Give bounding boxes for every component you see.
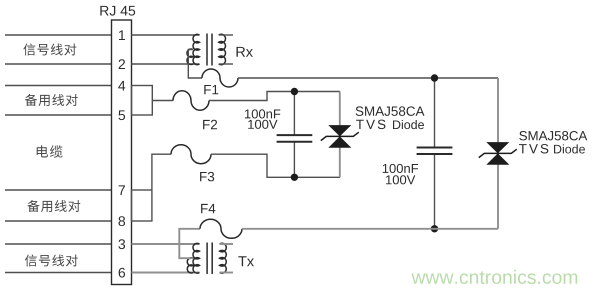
label Tx	[238, 256, 254, 266]
wire F4 to bottom rail	[242, 228, 498, 230]
wire: left lead row line pin 5	[5, 114, 112, 116]
wire: left lead row line pin 4	[5, 85, 112, 87]
label C2 voltage 100V	[386, 175, 415, 184]
junction node rail top	[431, 74, 438, 81]
label: cable	[37, 145, 63, 157]
transformer T2 Tx core	[206, 243, 208, 275]
wire top rail corner down to D2	[497, 78, 499, 229]
transformer T2 Tx primary tap half-winding	[187, 258, 193, 273]
wire: left lead row line pin 2	[5, 63, 112, 65]
label C1 value 100nF	[245, 109, 280, 118]
label: signal pair (bottom)	[25, 254, 78, 266]
transformer T1 Rx primary tap half-winding	[187, 49, 193, 64]
transformer T1 Rx core	[206, 34, 208, 66]
wire bracket pins 4-5	[132, 86, 153, 116]
TVS diode D2 SMAJ58CA	[486, 142, 509, 153]
fuse F4	[200, 219, 242, 238]
TVS diode D1 lead	[339, 92, 341, 178]
wire: left lead row line pin 8	[5, 220, 112, 222]
label F4	[201, 204, 215, 213]
wire Tx secondary bottom stub	[220, 272, 234, 274]
transformer T1 Rx primary winding	[193, 34, 199, 64]
wire: left lead row line pin 1	[5, 34, 112, 36]
fuse F2	[173, 91, 209, 111]
wire F2 to cell1 top rail	[209, 92, 340, 101]
label C1 voltage 100V	[248, 120, 277, 129]
transformer T1 Rx secondary winding	[219, 34, 226, 64]
wire pin2 to Rx primary bottom	[132, 63, 200, 65]
label Rx	[236, 47, 252, 57]
fuse F1	[202, 69, 238, 87]
wire pin6 to Tx primary bottom	[132, 272, 200, 274]
label: signal pair (top)	[23, 43, 76, 55]
label: spare pair (upper)	[25, 94, 78, 106]
wire Rx secondary bottom stub	[219, 63, 233, 65]
label F2	[203, 120, 217, 129]
pin 2	[119, 59, 125, 69]
wire Tx centre tap to F4	[179, 229, 200, 258]
junction node cell1 top	[291, 88, 298, 95]
pin 3	[118, 239, 125, 249]
transformer T2 Tx secondary winding	[220, 243, 227, 273]
label F3	[200, 172, 214, 182]
wire pin3 to Tx primary top	[132, 243, 200, 245]
wire bracket pins 7-8	[132, 190, 152, 221]
pin 1	[119, 30, 125, 40]
wire F3 to cell1 bottom rail	[211, 154, 340, 177]
capacitor C1 plates	[277, 135, 313, 142]
junction node rail bottom	[431, 225, 438, 232]
label D1 part SMAJ58CA	[356, 106, 425, 116]
wire bracket to F2	[152, 100, 173, 102]
wire: left lead row line pin 6	[5, 272, 112, 274]
pin 5	[118, 110, 125, 120]
pin 8	[119, 216, 126, 226]
pin 6	[119, 268, 125, 278]
label C2 value 100nF	[383, 164, 418, 173]
label D2 TVS Diode	[519, 144, 548, 154]
junction node cell1 bottom	[291, 174, 298, 181]
connector J1 RJ45 body	[112, 20, 132, 285]
wire bracket riser to F3	[152, 154, 171, 190]
fuse F3	[171, 145, 211, 164]
wire Tx secondary top stub	[220, 243, 234, 245]
label: spare pair (lower)	[27, 200, 80, 212]
watermark www.cntronics.com	[411, 270, 577, 284]
wire Rx secondary top stub	[219, 34, 233, 36]
TVS diode D1 SMAJ58CA	[328, 125, 351, 136]
label D1 TVS Diode	[356, 120, 385, 130]
transformer T2 Tx primary winding	[193, 243, 200, 273]
label D2 part SMAJ58CA	[519, 131, 587, 140]
wire Rx centre tap	[188, 50, 202, 79]
capacitor C2 plates	[417, 148, 453, 155]
wire pin1 to Rx primary top	[132, 34, 200, 36]
wire: left lead row line pin 7	[5, 189, 112, 191]
label F1	[204, 85, 218, 94]
pin 7	[119, 185, 125, 195]
capacitor C1 leads	[293, 92, 295, 178]
capacitor C2 leads	[434, 78, 436, 229]
wire F1 to top rail	[238, 77, 498, 79]
label: RJ 45	[100, 6, 135, 16]
wire: left lead row line pin 3	[5, 243, 112, 245]
pin 4	[118, 81, 125, 91]
